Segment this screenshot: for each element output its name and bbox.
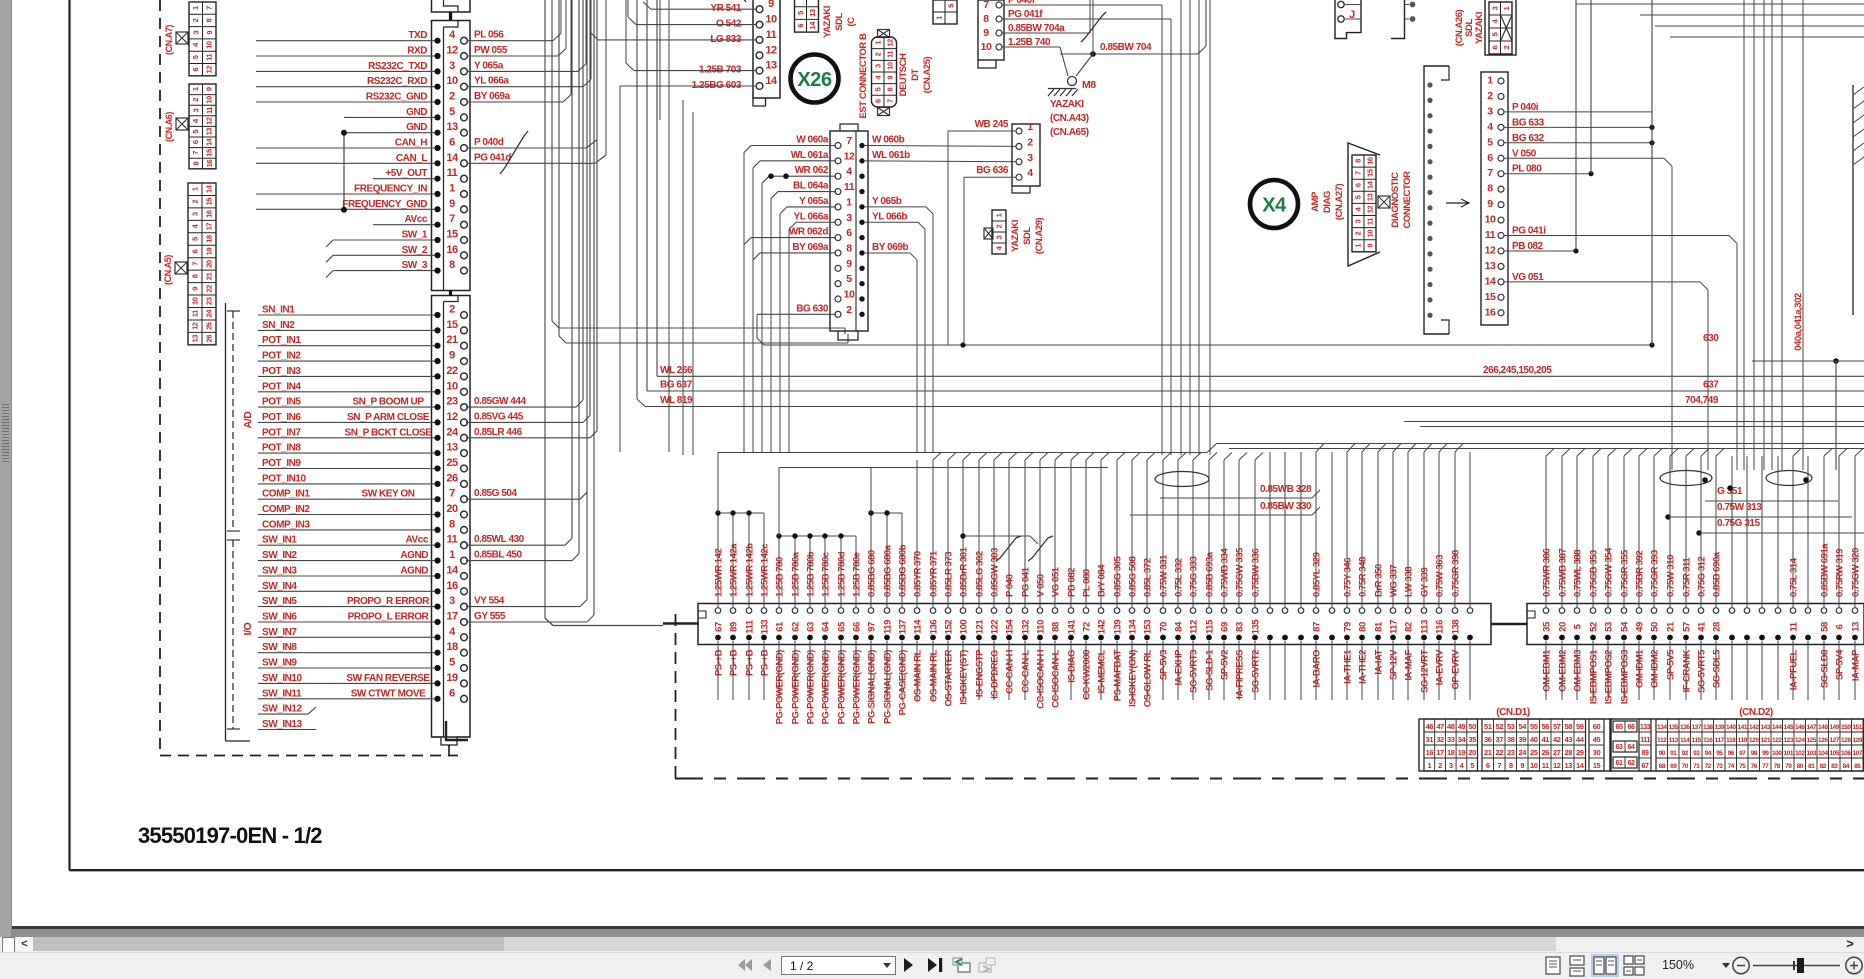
svg-text:105: 105: [1830, 750, 1840, 757]
svg-text:59: 59: [1576, 722, 1584, 731]
svg-text:11: 11: [766, 29, 777, 41]
bus A pin 115 0.85B 693a: [1206, 608, 1212, 614]
svg-text:16: 16: [205, 210, 214, 218]
svg-text:103: 103: [1807, 750, 1817, 757]
bus A pin 117 WG 337: [1390, 608, 1396, 614]
svg-text:5: 5: [1470, 761, 1474, 770]
svg-text:47: 47: [1436, 722, 1444, 731]
svg-text:78: 78: [1774, 763, 1781, 770]
svg-text:VG 051: VG 051: [1051, 566, 1062, 597]
svg-text:125: 125: [1807, 737, 1817, 744]
svg-text:1.25WR 142a: 1.25WR 142a: [729, 543, 740, 597]
svg-text:3: 3: [1487, 105, 1493, 117]
svg-text:133: 133: [760, 620, 771, 635]
svg-text:W 060b: W 060b: [872, 135, 905, 146]
svg-text:7: 7: [191, 151, 200, 155]
svg-text:149: 149: [1830, 724, 1840, 731]
svg-text:45: 45: [1593, 735, 1601, 744]
svg-text:121: 121: [1761, 737, 1771, 744]
svg-text:1: 1: [191, 187, 200, 191]
EST pin 12: [756, 52, 763, 59]
svg-text:X26: X26: [797, 69, 832, 91]
svg-text:113: 113: [1669, 737, 1679, 744]
svg-text:122: 122: [990, 620, 1001, 635]
svg-text:8: 8: [1509, 761, 1513, 770]
svg-text:A/D: A/D: [242, 411, 254, 429]
svg-text:4: 4: [449, 626, 456, 638]
svg-text:SW_IN9: SW_IN9: [262, 658, 297, 669]
svg-text:IA-FIPRESS: IA-FIPRESS: [1235, 650, 1246, 699]
svg-text:1: 1: [995, 213, 1004, 217]
strip3 pin 4: [835, 173, 841, 179]
svg-text:5: 5: [449, 657, 455, 669]
link between bus strips: [1491, 623, 1527, 626]
svg-text:0.75L 314: 0.75L 314: [1789, 557, 1800, 597]
svg-text:20: 20: [446, 503, 458, 515]
svg-text:1.25B 740: 1.25B 740: [1008, 37, 1051, 48]
svg-text:SP-5V5: SP-5V5: [1666, 649, 1677, 680]
svg-text:7: 7: [1487, 167, 1493, 179]
svg-text:IS-EBMPOS3: IS-EBMPOS3: [1620, 650, 1631, 704]
svg-text:P 040i: P 040i: [1512, 102, 1539, 113]
svg-text:YAZAKI: YAZAKI: [822, 6, 833, 38]
strip lower thick corner: [446, 721, 468, 740]
svg-text:OS-MAIN RL: OS-MAIN RL: [913, 649, 924, 702]
svg-text:5: 5: [1354, 195, 1363, 199]
svg-text:AVcc: AVcc: [406, 535, 429, 546]
strip3 pin 11: [835, 189, 841, 195]
svg-text:139: 139: [1113, 620, 1124, 635]
connector strip W060 CN: [830, 131, 868, 331]
svg-text:13: 13: [446, 442, 458, 454]
svg-text:7: 7: [1497, 761, 1501, 770]
svg-text:76: 76: [1751, 763, 1758, 770]
svg-text:10: 10: [1530, 761, 1538, 770]
svg-text:0.75WR 386: 0.75WR 386: [1542, 549, 1553, 597]
bus A pin 65 1.25B 780d: [838, 608, 844, 614]
svg-text:0.75W 331: 0.75W 331: [1159, 554, 1170, 597]
svg-text:GND: GND: [406, 122, 427, 133]
strip3 pin 5: [835, 281, 841, 287]
strip1 pin 5 row GND: [434, 114, 440, 120]
svg-text:IA-EXHP: IA-EXHP: [1174, 649, 1185, 685]
svg-text:19: 19: [446, 672, 458, 684]
svg-text:0.75W 310: 0.75W 310: [1666, 555, 1677, 597]
svg-text:EST CONNECTOR B: EST CONNECTOR B: [858, 33, 869, 119]
svg-text:1: 1: [449, 183, 455, 195]
strip1 pin 7 row AVcc: [434, 222, 440, 228]
svg-text:93: 93: [1693, 750, 1700, 757]
toolbar last page button: [928, 958, 937, 972]
bus A pin nc: [1467, 608, 1473, 614]
svg-text:SW_IN12: SW_IN12: [262, 704, 303, 715]
svg-text:(CN.A7): (CN.A7): [164, 25, 174, 55]
svg-text:RS232C_RXD: RS232C_RXD: [367, 76, 427, 87]
bus A pin 119 0.85BG 680a: [884, 608, 890, 614]
svg-text:SW CTWT MOVE: SW CTWT MOVE: [351, 688, 426, 699]
svg-text:IS-DPDREG: IS-DPDREG: [990, 650, 1001, 699]
svg-text:SW KEY ON: SW KEY ON: [362, 489, 415, 500]
svg-text:112: 112: [1189, 620, 1200, 634]
svg-text:61: 61: [775, 621, 786, 632]
svg-text:5: 5: [191, 237, 200, 241]
svg-text:81: 81: [1808, 763, 1815, 770]
svg-text:12: 12: [205, 117, 214, 125]
strip upper top stub: [449, 12, 452, 21]
bus trunk line A: [718, 452, 1207, 454]
svg-text:28: 28: [1712, 622, 1723, 632]
table CN.D1 outer: [1419, 719, 1611, 771]
svg-text:9: 9: [886, 76, 895, 80]
strip3 pin 9: [835, 265, 841, 271]
toolbar first page button: [738, 959, 752, 971]
strip3 left descending verticals: [743, 153, 745, 453]
svg-text:62: 62: [1628, 760, 1635, 767]
svg-text:BY 069a: BY 069a: [792, 242, 828, 253]
svg-text:POT_IN5: POT_IN5: [262, 397, 301, 408]
svg-text:79: 79: [1343, 622, 1354, 632]
svg-text:83: 83: [1235, 622, 1246, 632]
svg-text:(C: (C: [846, 17, 857, 27]
bus A pin 83 0.75GW 335: [1236, 608, 1242, 614]
svg-text:16: 16: [1485, 306, 1496, 318]
svg-text:71: 71: [1693, 763, 1700, 770]
bus A pin 112 0.75G 333: [1190, 608, 1196, 614]
svg-text:SP-5V3: SP-5V3: [1159, 650, 1170, 680]
svg-text:WL 061b: WL 061b: [872, 150, 910, 161]
svg-text:PL 080: PL 080: [1082, 569, 1093, 597]
svg-text:21: 21: [1484, 748, 1492, 757]
svg-text:6: 6: [846, 227, 852, 239]
svg-text:12: 12: [446, 45, 458, 57]
svg-text:126: 126: [1818, 737, 1828, 744]
bus A pin 63 1.25B 780b: [807, 608, 813, 614]
svg-text:FREQUENCY_IN: FREQUENCY_IN: [354, 184, 427, 195]
svg-text:143: 143: [1761, 724, 1771, 731]
svg-text:63: 63: [1616, 744, 1623, 751]
svg-text:SW_IN5: SW_IN5: [262, 596, 297, 607]
svg-text:RXD: RXD: [407, 46, 427, 57]
svg-text:15: 15: [446, 229, 458, 241]
svg-text:(CN.A5): (CN.A5): [163, 255, 173, 285]
svg-text:8: 8: [191, 161, 200, 165]
svg-text:14: 14: [446, 565, 459, 577]
bus A pin nc: [1267, 608, 1273, 614]
svg-text:266,245,150,205: 266,245,150,205: [1483, 365, 1552, 376]
EST wire O 542: [636, 24, 756, 26]
svg-text:0.85BG 680: 0.85BG 680: [867, 550, 878, 597]
svg-text:SW_IN3: SW_IN3: [262, 566, 297, 577]
bus B pin 28 0.85B 690a: [1713, 608, 1719, 614]
svg-text:69: 69: [1220, 622, 1231, 632]
previous strip bottom sliver: [432, 0, 471, 12]
svg-text:SW_2: SW_2: [402, 245, 428, 256]
svg-text:GND: GND: [406, 107, 427, 118]
svg-text:7: 7: [983, 0, 989, 11]
svg-text:36: 36: [1484, 735, 1492, 744]
svg-text:0.85YR 370: 0.85YR 370: [913, 551, 924, 597]
svg-text:WR 062d: WR 062d: [789, 227, 828, 238]
svg-text:2: 2: [874, 52, 883, 56]
svg-text:80: 80: [1797, 763, 1804, 770]
svg-text:11: 11: [447, 534, 458, 546]
strip lower bottom tab: [432, 737, 470, 745]
svg-text:11: 11: [886, 51, 895, 58]
svg-text:146: 146: [1795, 724, 1805, 731]
svg-text:OS-STARTER: OS-STARTER: [944, 649, 955, 706]
svg-text:TXD: TXD: [408, 30, 427, 41]
svg-text:P 040d: P 040d: [474, 137, 504, 148]
svg-text:4: 4: [1460, 761, 1465, 770]
strip2 SW_IN12 SW_IN13 wires: [258, 713, 308, 715]
svg-text:VG 051: VG 051: [1512, 272, 1544, 283]
svg-text:SG-SDL5: SG-SDL5: [1712, 649, 1723, 688]
bus B pin 35 0.75WR 386: [1543, 608, 1549, 614]
svg-text:M8: M8: [1082, 79, 1096, 91]
svg-text:152: 152: [944, 620, 955, 635]
svg-text:0.75L 332: 0.75L 332: [1174, 558, 1185, 597]
svg-text:138: 138: [1451, 620, 1462, 635]
svg-text:13: 13: [1485, 260, 1496, 272]
svg-text:15: 15: [1485, 291, 1496, 303]
svg-text:CC-ISOCAN-L: CC-ISOCAN-L: [1051, 649, 1062, 707]
bus A pin 70 0.75W 331: [1160, 608, 1166, 614]
bus A pin 72 PL 080: [1083, 608, 1089, 614]
svg-text:1.25B 780b: 1.25B 780b: [806, 551, 817, 597]
svg-text:0.75Y 346: 0.75Y 346: [1343, 558, 1354, 597]
svg-text:24: 24: [1519, 748, 1528, 757]
connector table CN.A7: [189, 2, 216, 76]
bus B pin 6 0.75RW 319: [1836, 608, 1842, 614]
svg-text:3: 3: [1354, 219, 1363, 223]
svg-text:0.85VG 445: 0.85VG 445: [474, 411, 524, 422]
svg-text:66: 66: [1628, 724, 1635, 731]
svg-text:8: 8: [983, 13, 989, 25]
svg-text:0.85LG 302: 0.85LG 302: [975, 551, 986, 597]
bus A pin 137 0.85BG 680b: [899, 608, 905, 614]
svg-text:14: 14: [446, 152, 459, 164]
node X26: [791, 55, 839, 103]
svg-text:90: 90: [1659, 750, 1666, 757]
svg-text:0.85BW 704: 0.85BW 704: [1100, 42, 1152, 53]
svg-text:4: 4: [191, 223, 200, 228]
bus A pin 113 GY 339: [1421, 608, 1427, 614]
svg-text:DIAGNOSTIC: DIAGNOSTIC: [1390, 172, 1401, 228]
svg-text:SN_IN1: SN_IN1: [262, 305, 295, 316]
svg-text:35: 35: [1468, 735, 1476, 744]
svg-text:123: 123: [1784, 737, 1794, 744]
svg-text:122: 122: [1772, 737, 1782, 744]
svg-text:41: 41: [1697, 621, 1708, 632]
strip3 right wire YL 066b: [864, 221, 918, 223]
svg-text:144: 144: [1772, 724, 1782, 731]
svg-text:119: 119: [1738, 737, 1748, 744]
svg-text:13: 13: [446, 121, 458, 133]
svg-text:1.25WR 142c: 1.25WR 142c: [760, 544, 771, 597]
svg-text:BrR 350: BrR 350: [1374, 564, 1385, 597]
WB245 pin 2: [1016, 143, 1022, 149]
svg-text:11: 11: [205, 54, 214, 61]
svg-text:1: 1: [449, 549, 455, 561]
svg-text:13: 13: [1366, 193, 1375, 201]
svg-text:83: 83: [1831, 763, 1838, 770]
bus A pin 121 0.85LG 302: [976, 608, 982, 614]
svg-text:151: 151: [1853, 724, 1863, 731]
svg-text:SG-SLD-1: SG-SLD-1: [1205, 649, 1216, 691]
svg-text:SN_P BCKT CLOSE: SN_P BCKT CLOSE: [345, 427, 433, 438]
bus A pin 142 BrY 084: [1098, 608, 1104, 614]
bus A pin 154 P 040: [1006, 608, 1012, 614]
strip3 pin 7: [835, 143, 841, 149]
svg-text:32: 32: [1436, 735, 1444, 744]
svg-text:6: 6: [1835, 624, 1846, 629]
svg-text:9: 9: [1366, 244, 1375, 248]
svg-text:(CN.D1): (CN.D1): [1496, 707, 1530, 718]
svg-text:18: 18: [205, 235, 214, 243]
svg-text:WG 337: WG 337: [1389, 565, 1400, 597]
svg-text:COMP_IN1: COMP_IN1: [262, 489, 310, 500]
svg-text:10: 10: [205, 96, 214, 104]
svg-text:PROPO_R ERROR: PROPO_R ERROR: [347, 596, 430, 607]
svg-text:0.85G 504: 0.85G 504: [474, 488, 518, 499]
svg-text:13: 13: [205, 128, 214, 136]
strip1 pin 12 row RXD: [434, 53, 440, 59]
strip1 pin 13 row GND: [434, 130, 440, 136]
bus A pin 62 1.25B 780a: [792, 608, 798, 614]
top grid YAZAKI left: [795, 0, 819, 32]
svg-text:1.25B 780c: 1.25B 780c: [821, 552, 832, 597]
svg-text:0.85LR 446: 0.85LR 446: [474, 427, 523, 438]
connector strip pins 7-10: [978, 0, 1004, 60]
svg-text:23: 23: [205, 297, 214, 305]
svg-text:11: 11: [447, 167, 458, 179]
bus A pin 100 0.85BrR 301: [960, 608, 966, 614]
bus B pin 11 0.75L 314: [1790, 608, 1796, 614]
svg-text:0.75W 313: 0.75W 313: [1717, 502, 1762, 513]
bus A pin 110 V 050: [1037, 608, 1043, 614]
svg-text:13: 13: [808, 9, 817, 17]
bus A pin 152 0.85LR 373: [945, 608, 951, 614]
svg-text:BY 069b: BY 069b: [872, 242, 908, 253]
svg-text:26: 26: [205, 335, 214, 343]
svg-text:8: 8: [1487, 183, 1493, 195]
svg-text:15: 15: [1366, 169, 1375, 177]
svg-text:22: 22: [446, 365, 458, 377]
svg-text:IS-EBMPOS2: IS-EBMPOS2: [1604, 650, 1615, 704]
svg-text:8: 8: [449, 518, 455, 530]
WB245 pin4 wire BG 636 riser: [964, 176, 1016, 178]
svg-text:137: 137: [1692, 724, 1702, 731]
svg-text:75: 75: [1739, 763, 1746, 770]
svg-text:7: 7: [886, 99, 895, 103]
svg-text:SG-5VRT3: SG-5VRT3: [1189, 650, 1200, 693]
svg-text:30: 30: [1593, 748, 1601, 757]
strip3 pin 2: [835, 311, 841, 317]
svg-text:0.75G 312: 0.75G 312: [1697, 557, 1708, 597]
ECU boundary stub at connector bottom: [448, 745, 450, 756]
svg-text:5: 5: [191, 55, 200, 59]
svg-text:SW_IN8: SW_IN8: [262, 642, 297, 653]
top small grid x940: [933, 0, 957, 24]
svg-text:OM-IDM1: OM-IDM1: [1635, 649, 1646, 688]
svg-text:115: 115: [1692, 737, 1702, 744]
svg-text:IS-EBMPOS1: IS-EBMPOS1: [1589, 649, 1600, 704]
svg-text:9: 9: [205, 31, 214, 35]
svg-text:12: 12: [844, 150, 855, 162]
bus A pin 136 0.85YR 371: [930, 608, 936, 614]
mid descenders x1162-1215: [1161, 5, 1163, 455]
svg-text:2: 2: [1438, 761, 1442, 770]
bus B pin nc: [1805, 608, 1811, 614]
svg-text:OS-GLOW RL: OS-GLOW RL: [1143, 649, 1154, 707]
bus B pin 58 0.85BW 691a: [1821, 608, 1827, 614]
svg-text:85: 85: [1854, 763, 1861, 770]
bus B pin 53 0.75GW 354: [1605, 608, 1611, 614]
svg-text:13: 13: [765, 60, 777, 72]
arrow to right connector: [1446, 202, 1468, 204]
svg-text:2: 2: [191, 200, 200, 204]
svg-text:148: 148: [1818, 724, 1828, 731]
svg-text:PG-POWER(GND): PG-POWER(GND): [775, 650, 786, 725]
bus A pin 61 1.25B 780: [776, 608, 782, 614]
bus B pin nc: [1759, 608, 1765, 614]
svg-text:10: 10: [886, 62, 895, 70]
svg-text:0.85B 693a: 0.85B 693a: [1205, 551, 1216, 597]
svg-text:6: 6: [449, 137, 455, 149]
svg-text:POT_IN1: POT_IN1: [262, 335, 301, 346]
svg-text:132: 132: [1021, 620, 1032, 635]
svg-text:33: 33: [1447, 735, 1455, 744]
svg-text:10: 10: [205, 41, 214, 49]
svg-text:31: 31: [1426, 735, 1434, 744]
bus A pin 64 1.25B 780c: [822, 608, 828, 614]
svg-text:42: 42: [1553, 735, 1561, 744]
ECU dashed boundary bottom right: [675, 778, 1864, 780]
svg-text:PG 041d: PG 041d: [474, 152, 511, 163]
svg-text:(CN.A27): (CN.A27): [1334, 183, 1345, 220]
svg-text:3: 3: [846, 212, 852, 224]
svg-text:72: 72: [1705, 763, 1712, 770]
svg-text:0.85L 372: 0.85L 372: [1143, 558, 1154, 597]
svg-text:DEUTSCH: DEUTSCH: [898, 53, 909, 96]
svg-text:0.75BW 336: 0.75BW 336: [1251, 549, 1262, 597]
long wire WL 266: [657, 375, 1864, 377]
bus trunk line D: [1404, 421, 1864, 423]
svg-text:0.85BW 330: 0.85BW 330: [1260, 501, 1312, 512]
svg-text:0.85BG 680b: 0.85BG 680b: [898, 544, 909, 597]
svg-text:SDL: SDL: [834, 13, 845, 31]
svg-text:DIAG: DIAG: [1322, 191, 1333, 213]
svg-text:3: 3: [1449, 761, 1453, 770]
svg-text:CONNECTOR: CONNECTOR: [1402, 171, 1413, 229]
svg-text:133: 133: [1640, 724, 1651, 731]
svg-text:94: 94: [1705, 750, 1712, 757]
bus B pin nc: [1775, 608, 1781, 614]
svg-text:BrY 084: BrY 084: [1097, 564, 1108, 597]
svg-text:11: 11: [1789, 621, 1800, 631]
svg-text:1: 1: [1354, 244, 1363, 248]
svg-text:0.75WL 388: 0.75WL 388: [1573, 550, 1584, 597]
svg-text:65: 65: [837, 621, 848, 632]
EST wire LG 833: [598, 39, 756, 41]
svg-text:29: 29: [1576, 748, 1584, 757]
bus A group ties: [718, 512, 764, 514]
svg-text:4: 4: [1027, 167, 1033, 179]
svg-text:7: 7: [449, 213, 455, 225]
svg-text:15: 15: [1593, 761, 1601, 770]
svg-text:89: 89: [1642, 750, 1649, 757]
svg-text:6: 6: [191, 249, 200, 253]
